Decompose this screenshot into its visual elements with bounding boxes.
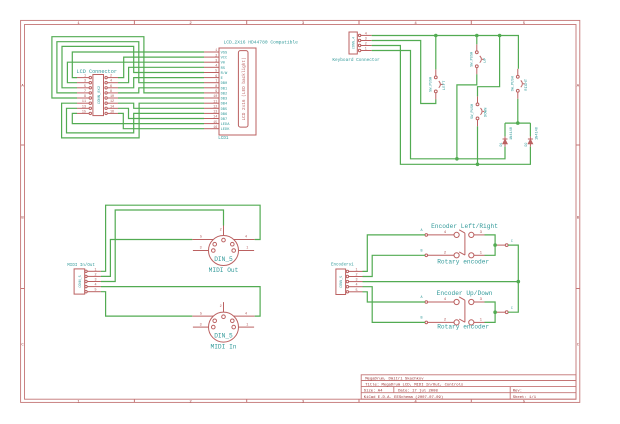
svg-text:3: 3 xyxy=(84,80,86,84)
svg-text:SW_PUSH: SW_PUSH xyxy=(512,76,516,91)
wire conn pin3 to MIDI Out pin2 xyxy=(101,210,224,282)
connector DIN_5 MIDI In xyxy=(192,302,254,351)
svg-text:16: 16 xyxy=(213,126,217,130)
junction common C / conn pin3 xyxy=(517,280,521,284)
svg-text:CONN_5: CONN_5 xyxy=(340,276,344,288)
wire conn pin5 to encoder U/D A xyxy=(363,292,426,302)
svg-text:2: 2 xyxy=(355,274,357,278)
svg-text:1: 1 xyxy=(246,323,248,327)
svg-text:6: 6 xyxy=(215,75,217,79)
svg-text:B: B xyxy=(420,316,422,320)
svg-text:3: 3 xyxy=(355,279,357,283)
svg-text:UP: UP xyxy=(484,57,488,62)
svg-text:1: 1 xyxy=(215,49,217,53)
svg-text:B: B xyxy=(420,249,422,253)
svg-text:Encoder Up/Down: Encoder Up/Down xyxy=(437,290,493,297)
svg-text:Size: A4: Size: A4 xyxy=(364,389,383,394)
switch SW_PUSH DOWN xyxy=(471,96,488,126)
svg-text:2: 2 xyxy=(220,229,222,233)
wire net LCD3-V0 (conn pin3) xyxy=(67,62,204,82)
svg-text:MegaDrum, Dmitri Skachkov: MegaDrum, Dmitri Skachkov xyxy=(365,376,424,381)
rotary encoder Encoder Up/Down xyxy=(420,290,512,331)
svg-text:4: 4 xyxy=(110,80,112,84)
svg-text:4: 4 xyxy=(365,32,367,36)
wire conn pin2 to encoder L/R B xyxy=(363,255,426,276)
svg-text:Rotary encoder: Rotary encoder xyxy=(437,259,489,266)
svg-text:MIDI In: MIDI In xyxy=(211,344,237,351)
wire net LCD11-DB4 (conn pin11) xyxy=(62,103,204,138)
svg-text:3: 3 xyxy=(200,247,202,251)
junction UP / D1 bus xyxy=(455,157,459,161)
junction keyboard rail / LEFT xyxy=(434,34,438,38)
svg-text:16: 16 xyxy=(110,110,114,114)
svg-text:5: 5 xyxy=(215,70,217,74)
junction DOWN / D2 bus xyxy=(476,163,480,167)
svg-text:8: 8 xyxy=(215,85,217,89)
svg-text:LEDA: LEDA xyxy=(221,123,231,127)
svg-text:LCD 2x16 (LED backlight): LCD 2x16 (LED backlight) xyxy=(242,57,247,120)
LCD module LCD1 LCD_2X16 xyxy=(204,39,298,141)
svg-text:3: 3 xyxy=(365,38,367,42)
svg-text:5: 5 xyxy=(200,236,202,240)
svg-text:2: 2 xyxy=(365,43,367,47)
connector MIDI In/Out CONN_5 xyxy=(67,263,101,294)
wire net LCD4-RS (conn pin4) xyxy=(118,67,204,82)
wire net LCD1-VSS (conn pin1) xyxy=(72,52,204,78)
svg-text:1: 1 xyxy=(246,247,248,251)
wire DOWN top branch xyxy=(478,36,500,97)
svg-text:4: 4 xyxy=(94,284,96,288)
wire net LCD6-E (conn pin6) xyxy=(118,78,204,88)
svg-text:1: 1 xyxy=(355,268,357,272)
wire net LCD12-DB5 (conn pin12) xyxy=(118,103,204,108)
wire conn pin4 to encoder U/D B xyxy=(363,287,426,323)
svg-text:10: 10 xyxy=(110,95,114,99)
diode D1 1N4148 xyxy=(500,127,514,147)
svg-text:SW_PUSH: SW_PUSH xyxy=(471,104,475,119)
wire net LCD14-DB7 (conn pin14) xyxy=(118,108,204,118)
svg-text:LCD_2X16 HD44780 Compatible: LCD_2X16 HD44780 Compatible xyxy=(223,39,298,45)
wire net LCD15-LEDA (conn pin15) xyxy=(72,113,204,123)
svg-text:RS: RS xyxy=(221,67,226,71)
svg-text:LCD1: LCD1 xyxy=(218,136,229,141)
svg-text:11: 11 xyxy=(213,100,217,104)
svg-text:14: 14 xyxy=(110,105,114,109)
wire conn pin2 to D2 bus xyxy=(372,46,531,165)
junction keyboard rail / UP xyxy=(475,34,479,38)
svg-text:DOWN: DOWN xyxy=(485,107,489,117)
svg-text:Rev:: Rev: xyxy=(513,390,522,394)
wire encoder U/D outputs merge xyxy=(485,302,496,322)
wire common C net (conn pin3) xyxy=(363,281,519,283)
wire UP bottom branch xyxy=(457,74,477,159)
svg-text:MIDI Out: MIDI Out xyxy=(209,267,239,274)
svg-text:4: 4 xyxy=(355,284,357,288)
svg-text:14: 14 xyxy=(213,116,217,120)
wire RIGHT bottom to diode tops xyxy=(517,99,519,123)
svg-text:D2: D2 xyxy=(525,142,529,146)
svg-text:DIN_5: DIN_5 xyxy=(214,256,233,263)
svg-text:D1: D1 xyxy=(500,142,504,146)
svg-text:VSS: VSS xyxy=(221,52,228,56)
junction keyboard rail / DOWN xyxy=(498,34,502,38)
svg-text:1: 1 xyxy=(94,268,96,272)
connector Encoders1 CONN_5 xyxy=(331,262,363,294)
connector DIN_5 MIDI Out xyxy=(192,226,254,275)
svg-text:SW_PUSH: SW_PUSH xyxy=(471,52,475,67)
svg-text:R/W: R/W xyxy=(221,71,228,76)
svg-text:SW_PUSH: SW_PUSH xyxy=(430,77,434,92)
svg-text:DB5: DB5 xyxy=(221,108,228,112)
svg-text:VCC: VCC xyxy=(221,57,228,61)
svg-text:12: 12 xyxy=(110,100,114,104)
svg-text:Date: 17 jul 2008: Date: 17 jul 2008 xyxy=(398,389,438,394)
svg-text:3: 3 xyxy=(200,323,202,327)
svg-text:13: 13 xyxy=(213,111,217,115)
wire net LCD10-DB3 (conn pin10) xyxy=(118,97,204,99)
svg-text:DB0: DB0 xyxy=(221,82,228,86)
wire conn pin1 to D1 bus xyxy=(372,51,505,159)
svg-text:DB1: DB1 xyxy=(221,87,228,91)
svg-text:6: 6 xyxy=(110,85,112,89)
connector P1 LCD Connector CONN_8X2 xyxy=(77,69,119,115)
svg-text:C: C xyxy=(511,307,513,311)
wire net LCD7-DB0 (conn pin7) xyxy=(57,42,204,93)
svg-text:V0: V0 xyxy=(221,62,225,66)
svg-text:9: 9 xyxy=(215,90,217,94)
svg-text:DIN_5: DIN_5 xyxy=(214,333,233,340)
wire conn pin1 to MIDI Out pin4 xyxy=(101,205,260,271)
svg-text:5: 5 xyxy=(84,85,86,89)
svg-text:2: 2 xyxy=(94,273,96,277)
svg-text:12: 12 xyxy=(213,106,217,110)
svg-text:KiCad E.D.A. EESchema (2007-0: KiCad E.D.A. EESchema (2007-07-09) xyxy=(364,395,443,400)
wire conn pin5 to MIDI In pin5 xyxy=(101,292,192,316)
junction L/R C xyxy=(493,243,497,247)
svg-text:LEDK: LEDK xyxy=(221,128,231,132)
svg-text:7: 7 xyxy=(84,90,86,94)
junction U/D C xyxy=(493,310,497,314)
svg-text:5: 5 xyxy=(355,289,357,293)
svg-text:MIDI In/Out: MIDI In/Out xyxy=(67,263,95,268)
svg-text:9: 9 xyxy=(84,95,86,99)
title block xyxy=(361,375,576,400)
svg-text:Title: MegaDrum LCD, MIDI In/O: Title: MegaDrum LCD, MIDI In/Out, Contro… xyxy=(365,382,464,387)
svg-text:DB3: DB3 xyxy=(221,98,228,102)
wire net LCD8-DB1 (conn pin8) xyxy=(118,88,204,93)
svg-text:DB4: DB4 xyxy=(221,103,228,107)
svg-text:Encoder Left/Right: Encoder Left/Right xyxy=(431,223,498,230)
switch SW_PUSH UP xyxy=(471,44,488,74)
svg-text:Sheet: 1/1: Sheet: 1/1 xyxy=(513,395,537,400)
svg-text:CONN_5: CONN_5 xyxy=(79,275,83,287)
svg-text:15: 15 xyxy=(82,110,86,114)
svg-text:3: 3 xyxy=(94,279,96,283)
svg-text:1: 1 xyxy=(365,48,367,52)
svg-text:2: 2 xyxy=(220,305,222,309)
svg-text:10: 10 xyxy=(213,95,217,99)
wire conn pin3 to LEFT bottom xyxy=(372,41,436,104)
svg-text:LEFT: LEFT xyxy=(443,80,447,90)
svg-text:3: 3 xyxy=(215,59,217,63)
svg-text:C: C xyxy=(511,240,513,244)
switch SW_PUSH LEFT xyxy=(430,69,447,99)
svg-text:DB2: DB2 xyxy=(221,92,228,96)
svg-text:CONN_8X2: CONN_8X2 xyxy=(98,85,102,104)
wire net LCD5-R/W (conn pin5) xyxy=(62,46,204,87)
wire conn pin1 to encoder L/R A xyxy=(363,235,426,272)
wire keyboard row rail (conn pin4) xyxy=(372,36,519,69)
svg-text:5: 5 xyxy=(94,289,96,293)
svg-text:4: 4 xyxy=(215,65,217,69)
svg-text:7: 7 xyxy=(215,80,217,84)
svg-text:4: 4 xyxy=(245,236,247,240)
wire UP top branch xyxy=(476,36,478,45)
wire LEFT top branch xyxy=(435,36,437,70)
svg-text:RIGHT: RIGHT xyxy=(525,78,529,91)
wire encoder L/R outputs merge xyxy=(485,235,496,255)
svg-text:1: 1 xyxy=(84,75,86,79)
wire conn pin2 to MIDI Out pin5 xyxy=(101,240,192,277)
svg-text:1N4148: 1N4148 xyxy=(510,127,514,140)
svg-text:1N4148: 1N4148 xyxy=(535,127,539,140)
connector Keyboard Connector CONN_4 xyxy=(332,32,380,63)
wire net LCD9-DB2 (conn pin9) xyxy=(52,37,204,98)
svg-text:11: 11 xyxy=(82,100,86,104)
diode D2 1N4148 xyxy=(525,127,539,147)
svg-text:13: 13 xyxy=(82,105,86,109)
svg-text:5: 5 xyxy=(200,312,202,316)
svg-text:Keyboard Connector: Keyboard Connector xyxy=(332,58,380,63)
svg-text:Rotary encoder: Rotary encoder xyxy=(437,324,489,331)
svg-text:15: 15 xyxy=(213,121,217,125)
wire net LCD13-DB6 (conn pin13) xyxy=(67,108,205,133)
svg-text:DB7: DB7 xyxy=(221,118,228,122)
wire DOWN bottom branch xyxy=(477,126,479,164)
svg-text:4: 4 xyxy=(245,312,247,316)
svg-text:8: 8 xyxy=(110,90,112,94)
svg-text:2: 2 xyxy=(110,75,112,79)
wire net LCD2-VCC (conn pin2) xyxy=(118,57,204,78)
svg-text:CONN_4: CONN_4 xyxy=(353,37,357,49)
svg-text:DB6: DB6 xyxy=(221,113,228,117)
wire net LCD16-LEDK (conn pin16) xyxy=(118,113,204,128)
svg-text:Encoders1: Encoders1 xyxy=(331,262,354,267)
svg-text:2: 2 xyxy=(215,54,217,58)
wire conn pin4 to MIDI In pin4 xyxy=(101,287,260,317)
rotary encoder Encoder Left/Right xyxy=(420,223,512,266)
switch SW_PUSH RIGHT xyxy=(512,69,529,99)
junction RIGHT / diode rail xyxy=(516,121,520,125)
